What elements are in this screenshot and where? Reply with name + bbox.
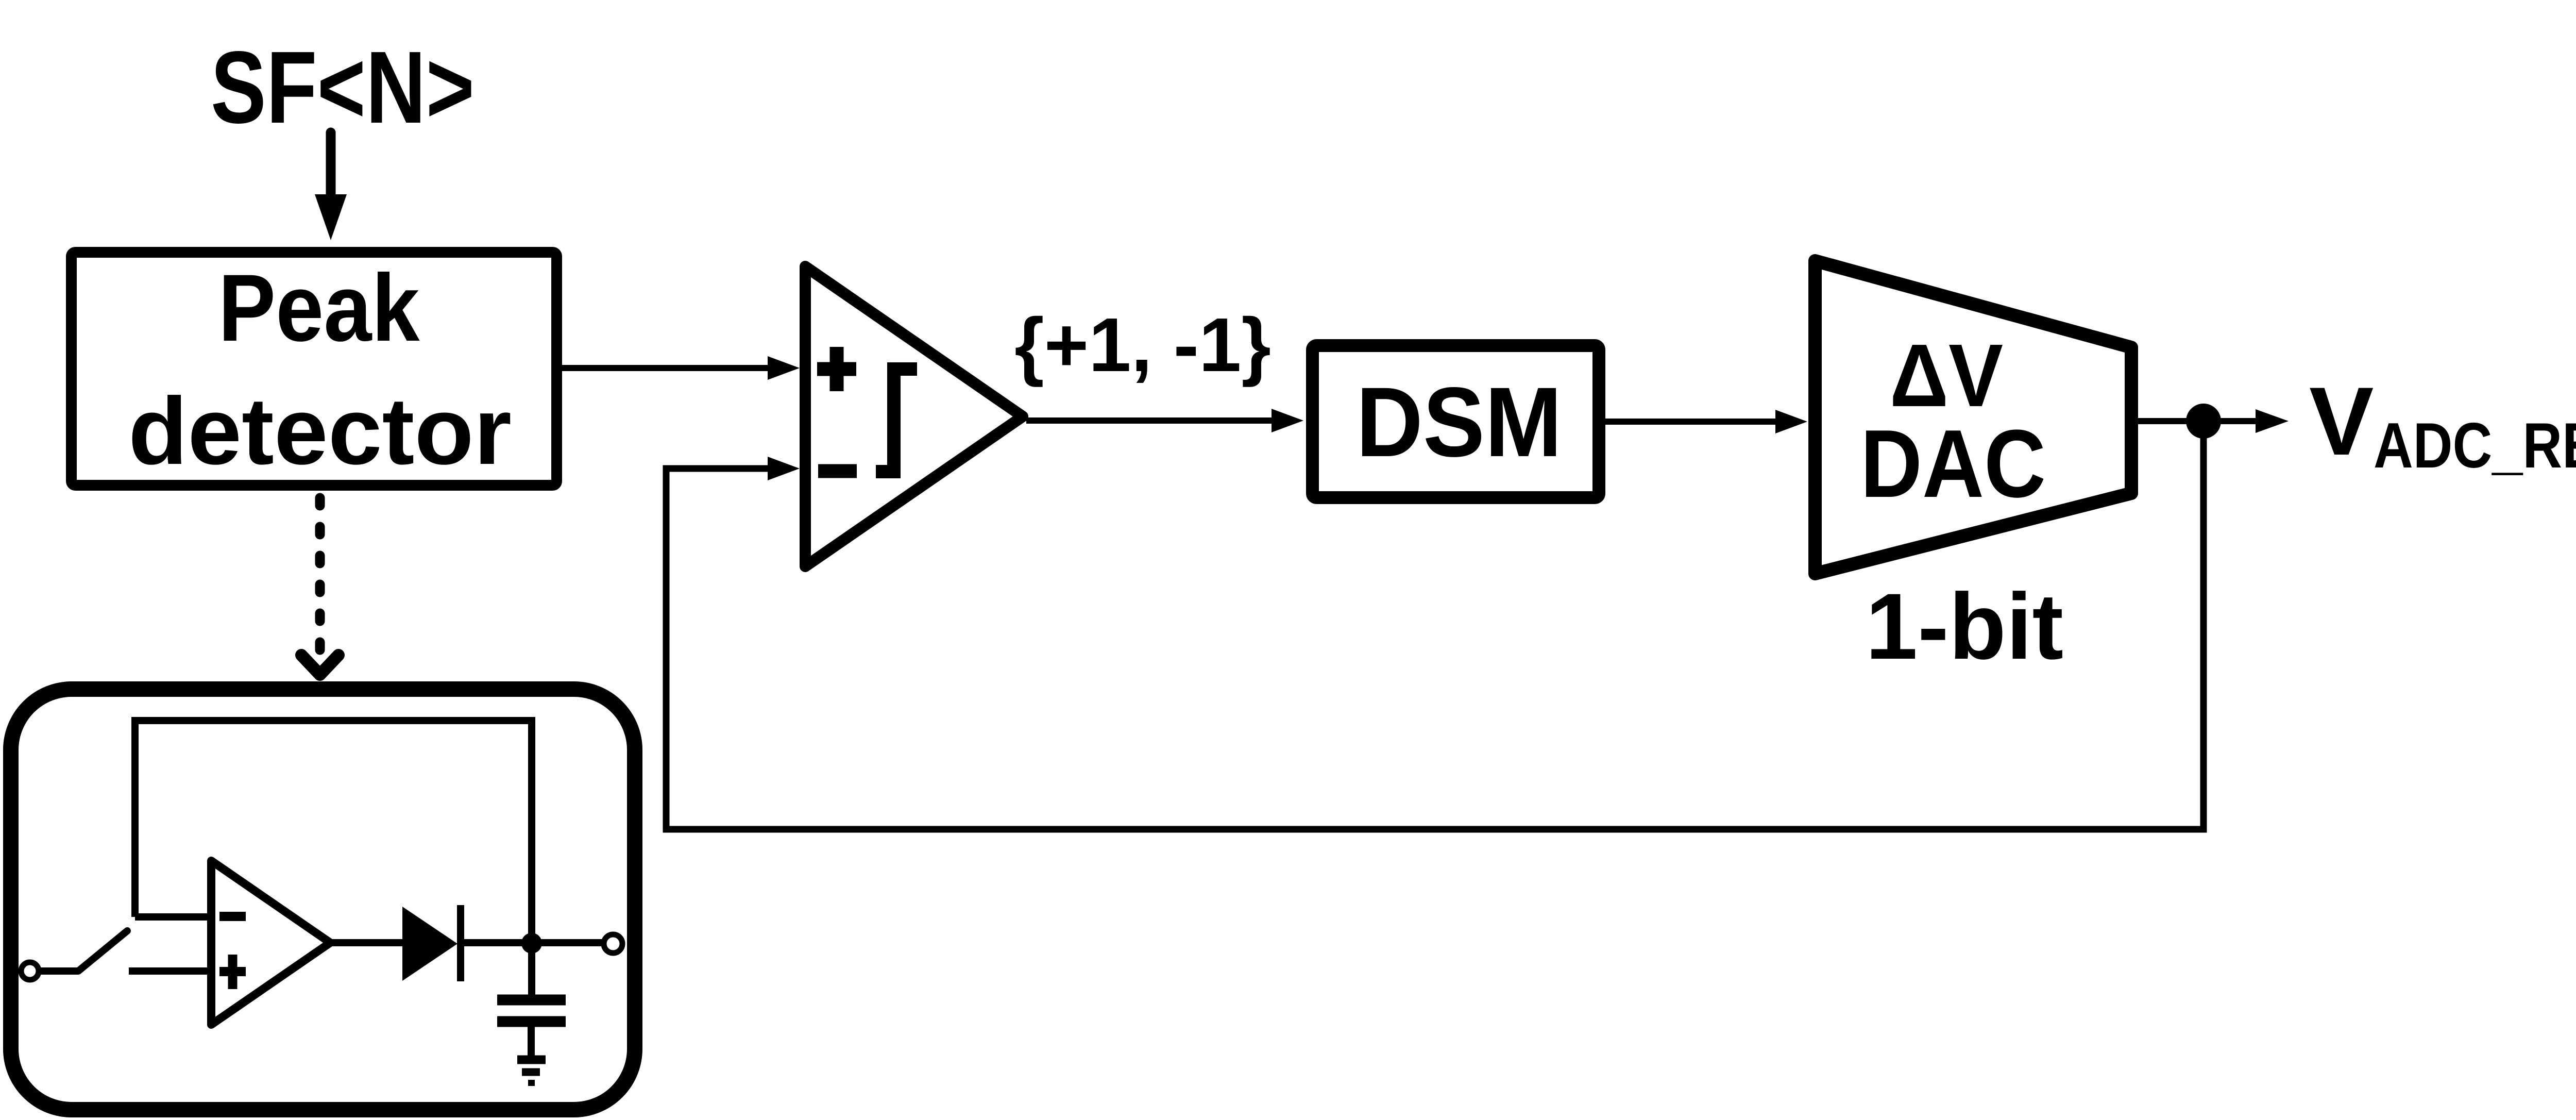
dashed wire peak detector to detail block [301, 498, 338, 675]
svg-text:V: V [2309, 367, 2374, 475]
switch S1 (open lever) [78, 931, 127, 971]
DAC U2 (1-bit delta-V DAC, trapezoid) [1815, 261, 2131, 574]
op-amp U3 [211, 861, 330, 1025]
wire DAC output to junction [2138, 418, 2210, 424]
wire DSM to DAC [1605, 410, 1807, 433]
comparator - input label [818, 464, 857, 478]
svg-text:Peak: Peak [218, 255, 420, 361]
peak detector detail block (rounded box) [11, 689, 635, 1110]
wire input terminal to switch [39, 967, 78, 975]
svg-text:detector: detector [128, 378, 512, 484]
peak detector label [128, 255, 512, 484]
comparator + input label [817, 347, 856, 391]
wire junction to VADC_REF arrow [2215, 409, 2289, 433]
wire capacitor to ground [528, 1027, 535, 1057]
wire switch to op-amp + input [129, 967, 208, 975]
input terminal [21, 962, 39, 980]
op-amp - label [219, 912, 246, 921]
comparator hysteresis symbol [876, 369, 917, 472]
feedback wire junction to comparator - input [666, 421, 2204, 829]
svg-text:DAC: DAC [1860, 410, 2046, 517]
svg-text:DSM: DSM [1356, 366, 1562, 477]
feedback wire op-amp output to - input [135, 721, 532, 943]
node VADC_REF label [2309, 367, 2576, 481]
wire diode to output node [461, 939, 603, 946]
svg-text:1-bit: 1-bit [1866, 574, 2063, 679]
junction node [2186, 404, 2221, 439]
svg-text:{+1, -1}: {+1, -1} [1014, 303, 1271, 388]
wire comparator output to DSM [1026, 409, 1303, 432]
wire peak detector to comparator + input [562, 356, 800, 380]
wire node to capacitor [528, 943, 535, 995]
svg-text:SF<N>: SF<N> [211, 30, 474, 145]
output node dot [521, 933, 542, 954]
capacitor C1 [497, 1000, 566, 1022]
ground [517, 1060, 546, 1083]
peak detector block [72, 253, 557, 486]
op-amp + label [219, 955, 246, 989]
wire SF<N> input arrow [315, 132, 347, 240]
svg-text:ADC_REF: ADC_REF [2374, 410, 2576, 481]
DSM block [1313, 346, 1599, 498]
comparator U1 (triangle) [805, 266, 1023, 566]
wire op-amp - input [135, 913, 208, 921]
wire op-amp output to diode [330, 939, 404, 946]
output terminal [604, 934, 622, 953]
diode D1 [402, 905, 461, 981]
